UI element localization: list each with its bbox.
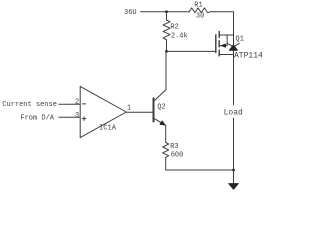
wire Q2 emitter to R3	[165, 125, 167, 142]
resistor R2	[163, 20, 170, 40]
svg-text:R2: R2	[170, 24, 178, 32]
gate bar	[215, 35, 217, 53]
body to drain tie	[226, 35, 228, 46]
drain stub	[219, 34, 233, 36]
base bar	[153, 98, 155, 121]
transistor Q1 MOSFET	[216, 32, 240, 56]
svg-text:600: 600	[171, 152, 184, 160]
svg-text:Current sense: Current sense	[2, 101, 57, 109]
svg-text:36U: 36U	[124, 9, 137, 17]
svg-text:IC1A: IC1A	[99, 125, 117, 133]
body arrow	[220, 44, 226, 48]
emitter diagonal	[154, 119, 166, 126]
svg-text:1: 1	[127, 105, 131, 113]
svg-text:Q2: Q2	[157, 103, 165, 111]
body diode triangle	[229, 45, 237, 50]
svg-text:Q1: Q1	[236, 36, 244, 44]
op-amp minus input sign	[83, 103, 86, 105]
transistor Q2	[154, 90, 167, 126]
wire R2 bottom lead to gate node	[166, 40, 168, 52]
svg-text:2.4k: 2.4k	[171, 32, 188, 40]
wire from D/A to pin 3	[59, 116, 80, 118]
junction gate node	[165, 50, 168, 53]
resistor R3	[163, 143, 169, 158]
emitter arrow	[160, 121, 165, 125]
wire current sense to pin 2	[59, 103, 80, 105]
collector diagonal	[154, 90, 166, 101]
output arrow down	[229, 184, 239, 190]
resistor R1	[189, 8, 210, 13]
svg-text:ATP114: ATP114	[234, 51, 263, 60]
svg-text:Load: Load	[224, 108, 243, 117]
op-amp plus input sign	[82, 117, 86, 121]
wire R3 bottom to bottom junction	[166, 158, 234, 171]
wire op-amp output to Q2 base	[126, 111, 152, 113]
svg-text:From D/A: From D/A	[20, 114, 54, 122]
svg-text:2: 2	[75, 99, 79, 107]
wire Q2 collector to gate node	[165, 51, 167, 89]
channel segment top	[218, 32, 220, 38]
svg-text:R3: R3	[170, 143, 178, 151]
svg-text:3: 3	[75, 112, 79, 120]
wire R2 top lead	[166, 12, 168, 20]
wire 36U to junction and R1 left lead	[141, 11, 190, 13]
body diode wing left	[227, 43, 232, 46]
channel segment middle	[218, 41, 220, 47]
body stub	[220, 45, 227, 47]
wire junction to output arrow	[233, 170, 235, 184]
wire drain vertical through Q1 to Load	[233, 35, 235, 105]
svg-text:30: 30	[196, 13, 204, 21]
svg-text:R1: R1	[194, 1, 202, 9]
source stub	[219, 54, 233, 56]
junction bottom	[232, 169, 235, 172]
body diode wing right	[235, 43, 239, 46]
op-amp U1 triangle	[80, 86, 126, 137]
junction top rail / R2	[165, 10, 168, 13]
channel segment bottom	[218, 50, 220, 56]
wire gate node to Q1 gate	[167, 50, 216, 52]
wire Load to bottom junction	[233, 118, 235, 170]
wire R1 right lead to top right corner	[210, 12, 233, 35]
